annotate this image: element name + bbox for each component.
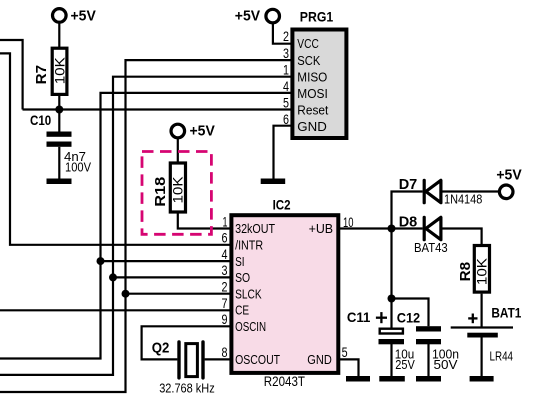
- svg-text:100V: 100V: [65, 159, 91, 174]
- svg-text:OSCOUT: OSCOUT: [235, 352, 280, 367]
- svg-text:+UB: +UB: [309, 221, 334, 236]
- svg-text:32.768 kHz: 32.768 kHz: [159, 381, 215, 396]
- svg-text:D8: D8: [399, 214, 418, 230]
- svg-text:2: 2: [283, 29, 289, 44]
- svg-text:SI: SI: [235, 254, 245, 269]
- svg-text:25V: 25V: [395, 357, 415, 372]
- svg-text:3: 3: [222, 263, 228, 278]
- svg-text:R2043T: R2043T: [264, 374, 305, 389]
- svg-text:5: 5: [342, 345, 348, 360]
- svg-text:10K: 10K: [474, 257, 490, 285]
- svg-text:6: 6: [222, 231, 228, 246]
- svg-text:D7: D7: [399, 177, 418, 193]
- svg-text:SLCK: SLCK: [235, 286, 262, 301]
- svg-text:SO: SO: [235, 270, 250, 285]
- svg-text:10K: 10K: [169, 176, 185, 204]
- svg-text:32kOUT: 32kOUT: [235, 221, 275, 236]
- svg-text:LR44: LR44: [490, 348, 514, 363]
- svg-text:PRG1: PRG1: [300, 9, 334, 25]
- svg-text:1: 1: [223, 214, 228, 229]
- svg-text:+5V: +5V: [496, 167, 522, 183]
- svg-text:/INTR: /INTR: [235, 238, 263, 253]
- svg-text:R7: R7: [33, 65, 50, 85]
- svg-text:CE: CE: [235, 303, 249, 318]
- svg-text:BAT43: BAT43: [414, 240, 448, 255]
- svg-text:VCC: VCC: [297, 36, 319, 51]
- svg-text:4: 4: [222, 247, 228, 262]
- svg-text:3: 3: [283, 46, 289, 61]
- svg-text:C11: C11: [347, 309, 371, 325]
- svg-text:C10: C10: [30, 112, 51, 128]
- svg-text:BAT1: BAT1: [491, 305, 521, 321]
- svg-text:MISO: MISO: [297, 70, 327, 85]
- svg-text:9: 9: [222, 312, 228, 327]
- svg-text:50V: 50V: [434, 357, 458, 372]
- svg-text:+5V: +5V: [235, 8, 261, 24]
- svg-text:Q2: Q2: [152, 340, 170, 357]
- svg-text:5: 5: [283, 95, 289, 110]
- svg-text:6: 6: [283, 112, 289, 127]
- svg-text:2: 2: [222, 280, 228, 295]
- svg-text:+5V: +5V: [71, 8, 97, 24]
- svg-text:8: 8: [222, 345, 228, 360]
- svg-text:R8: R8: [457, 262, 474, 282]
- svg-text:4: 4: [283, 79, 289, 94]
- svg-text:R18: R18: [152, 177, 169, 207]
- svg-text:10: 10: [343, 215, 354, 230]
- svg-text:+5V: +5V: [190, 124, 216, 140]
- svg-text:IC2: IC2: [273, 196, 291, 212]
- svg-text:7: 7: [222, 296, 228, 311]
- svg-text:1: 1: [283, 62, 289, 77]
- svg-text:GND: GND: [297, 119, 327, 134]
- svg-text:GND: GND: [307, 352, 332, 367]
- svg-text:10K: 10K: [51, 57, 67, 85]
- svg-text:1N4148: 1N4148: [444, 191, 482, 206]
- svg-text:C12: C12: [397, 310, 421, 326]
- svg-text:OSCIN: OSCIN: [235, 319, 266, 334]
- svg-text:MOSI: MOSI: [297, 86, 328, 101]
- svg-text:Reset: Reset: [297, 103, 328, 118]
- svg-text:SCK: SCK: [297, 53, 320, 68]
